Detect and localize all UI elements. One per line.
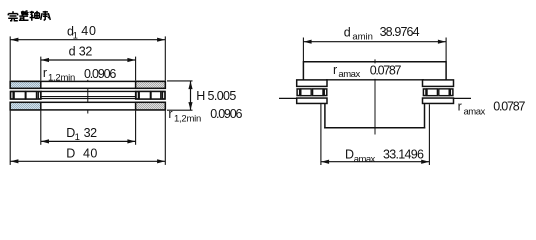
svg-text:d: d [69,44,76,58]
dimension d_amin : line and arrows [303,40,446,44]
svg-text:0.0787: 0.0787 [493,100,525,114]
extension lines for d [41,57,136,81]
label r 1,2min 0.0906 (top) [43,66,116,83]
washer top left section (shaft washer, blue) [10,81,41,88]
right roller 2 [439,89,449,96]
roller band left section [10,91,41,99]
svg-text:amax: amax [464,107,486,118]
dimension d 32 : line and arrows [41,58,136,62]
centre line (left figure axis) [87,80,89,114]
svg-text:r: r [168,107,172,121]
left roller 1 [301,89,311,96]
svg-text:amax: amax [338,69,360,80]
extension lines for d_amin [303,38,446,62]
right bearing section: washer bottom [423,98,454,103]
housing seat line left [279,97,297,99]
char 完 [8,11,18,21]
char 承 [41,11,51,21]
left roller 2 [313,89,323,96]
label D1 32 [66,126,97,143]
roller band right section [136,91,166,99]
washer top (full width) [10,81,165,88]
roller left 1 [14,92,25,100]
svg-text:40: 40 [83,146,97,160]
washer top right section (gray) [136,81,166,88]
cage piece left inner [38,92,41,99]
label d 32 [69,44,93,58]
right roller 1 [427,89,437,96]
svg-text:0.0906: 0.0906 [210,107,242,121]
roller right 1 [139,92,150,100]
svg-text:0.0787: 0.0787 [370,63,402,77]
svg-text:r: r [458,100,462,114]
left cage outer piece [297,89,300,96]
char 整 [19,11,29,21]
spigot left edge [324,104,326,129]
svg-text:32: 32 [84,126,98,140]
dimension d1 40 : line and arrows [10,38,165,42]
svg-text:d: d [344,25,351,39]
shoulder top edge [303,61,446,63]
extension lines for D [10,111,165,165]
title 完整轴承 (hand-drawn strokes) [8,11,50,21]
label d1 40 [67,24,96,41]
cage piece right inner [136,92,139,99]
centre line (right figure axis) [374,59,376,63]
svg-text:38.9764: 38.9764 [380,25,420,39]
housing seat line right [454,97,472,99]
washer bottom left section (blue) [10,102,41,110]
label D_amax 33.1496 [345,147,424,165]
right cage inner piece [423,89,426,96]
cage outer surface line (middle top) [41,90,136,92]
roller right 2 [151,92,161,100]
label r_amax 0.0787 (right) [458,100,526,118]
extension lines for d1 [10,36,165,80]
svg-text:amax: amax [354,154,376,165]
dimension H : line and arrows [188,81,192,110]
spigot right edge [424,104,426,129]
char 轴 [30,11,40,21]
svg-text:0.0906: 0.0906 [84,67,116,81]
dimension D_amax : line and arrows [321,160,430,164]
extension lines for D_amax [321,104,430,165]
left bearing section: washer top [297,80,327,87]
label r_amax 0.0787 (top) [333,63,401,80]
right cage outer piece [450,89,453,96]
svg-text:r: r [43,66,47,80]
extension lines for D1 [41,111,136,145]
roller left 2 [26,92,37,100]
svg-text:32: 32 [79,44,93,58]
left bearing section: washer bottom [297,98,327,103]
svg-text:33.1496: 33.1496 [383,147,424,161]
label d_amin 38.9764 [344,25,420,43]
label D 40 [66,146,97,160]
svg-text:1: 1 [73,30,78,41]
washer bottom right section (gray) [136,102,166,110]
cage pocket line (middle) [41,96,136,98]
svg-text:1: 1 [75,132,80,143]
washer bottom (full width) [10,102,165,110]
cage outer surface line (middle bottom) [41,98,136,100]
dimension D 40 : line and arrows [10,159,165,163]
svg-text:H 5.005: H 5.005 [196,89,236,103]
cage piece left outer [11,92,14,99]
svg-text:amin: amin [352,31,373,42]
right bearing section: washer top [423,80,454,87]
spigot bottom edge [324,127,425,129]
svg-text:1,2min: 1,2min [174,113,201,124]
left cage inner piece [324,89,327,96]
shoulder right edge [445,61,447,80]
svg-text:D: D [345,148,354,162]
svg-text:r: r [333,63,337,77]
svg-text:40: 40 [81,24,96,38]
cage piece right outer [162,92,165,99]
shoulder left edge [302,61,304,80]
dimension H : extension lines [167,81,193,110]
label r 1,2min 0.0906 (right) [168,107,242,124]
dimension D1 32 : line and arrows [41,139,136,143]
shoulder bottom edge between washers [326,79,424,81]
svg-text:D: D [66,146,75,160]
